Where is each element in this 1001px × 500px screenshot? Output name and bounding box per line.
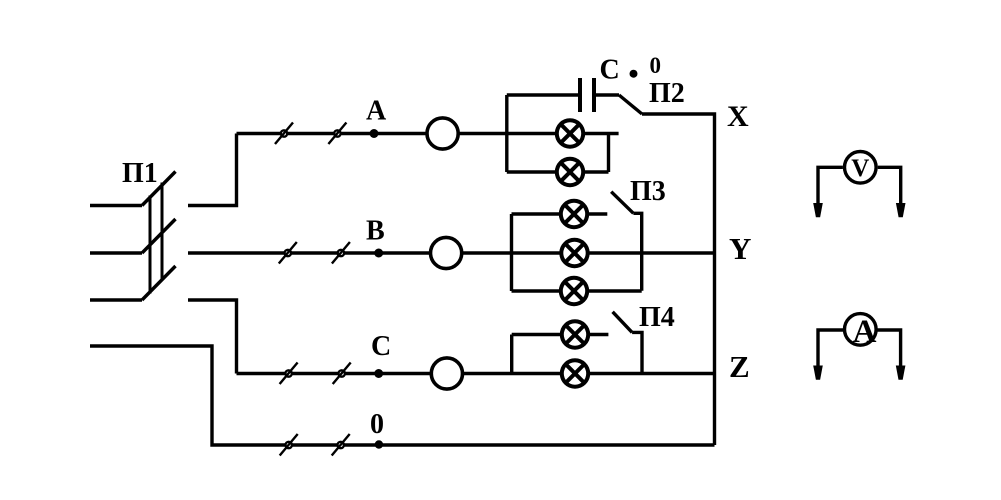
switch П1 blade pole 1 xyxy=(142,172,176,206)
connector fuse A2 xyxy=(328,123,346,145)
lamp B1 xyxy=(561,201,587,227)
wire phase A supply input xyxy=(90,204,142,207)
svg-text:0: 0 xyxy=(650,53,662,78)
wire phase B supply input xyxy=(90,251,142,254)
wire lamp B1 row xyxy=(512,212,608,215)
connector fuse 01 xyxy=(280,434,298,456)
lamp C1 xyxy=(562,321,588,347)
switch П1 blade pole 2 xyxy=(142,219,176,253)
switch П4 blade xyxy=(613,312,633,333)
lamp A2 xyxy=(557,159,583,185)
wire capacitor to П2 xyxy=(594,93,619,96)
svg-text:0: 0 xyxy=(370,409,384,440)
voltmeter V xyxy=(813,152,905,218)
svg-text:C: C xyxy=(371,331,391,362)
switch П3 blade xyxy=(611,192,633,214)
wire lamp C1 row xyxy=(512,333,609,336)
wire phase C group left vertical xyxy=(510,335,513,374)
ammeter A xyxy=(813,314,905,380)
svg-text:A: A xyxy=(366,96,387,127)
svg-text:B: B xyxy=(366,215,385,246)
node 0 dot xyxy=(375,440,383,448)
connector fuse C1 xyxy=(280,363,298,385)
wire phase A group right vertical xyxy=(607,134,610,173)
capacitor C plates xyxy=(580,78,594,112)
wire line C xyxy=(237,372,715,375)
svg-text:Z: Z xyxy=(729,349,750,384)
wire lamp A2 row xyxy=(507,170,609,173)
wire lamp B3 row xyxy=(512,289,642,292)
svg-text:П2: П2 xyxy=(649,78,685,109)
node B dot xyxy=(374,249,383,258)
wire capacitor branch left xyxy=(507,93,580,96)
wire phase B group left vertical xyxy=(510,214,513,291)
wire phase C supply input xyxy=(90,298,142,301)
switch П1 link bar xyxy=(150,183,162,294)
connector fuse B1 xyxy=(279,242,297,264)
wire phase A from П1 to line A xyxy=(188,134,237,206)
wire phase B from П1 (line B) xyxy=(188,251,715,254)
ammeter position phase A xyxy=(427,118,458,149)
lamp A1 xyxy=(557,120,583,146)
wire neutral line 0 xyxy=(90,346,715,445)
wire П4 to line C xyxy=(632,332,642,373)
switch П1 blade pole 3 xyxy=(142,266,176,300)
ammeter position phase B xyxy=(431,237,462,268)
lamp B2 xyxy=(561,240,587,266)
connector fuse B2 xyxy=(332,242,350,264)
svg-text:П3: П3 xyxy=(630,176,666,207)
wire bus X-Y-Z-0 xyxy=(642,114,715,445)
lamp C2 xyxy=(562,360,588,386)
wire phase C from П1 to line C xyxy=(188,300,237,374)
lamp B3 xyxy=(561,278,587,304)
node C dot xyxy=(374,369,383,378)
switch П2 blade xyxy=(619,95,642,114)
connector fuse 02 xyxy=(332,434,350,456)
svg-text:X: X xyxy=(727,100,749,133)
connector fuse C2 xyxy=(333,363,351,385)
wire phase A group left vertical xyxy=(505,95,508,172)
svg-text:V: V xyxy=(851,155,869,182)
svg-text:Y: Y xyxy=(729,231,751,266)
node dot near 0 label xyxy=(630,70,638,78)
svg-text:П4: П4 xyxy=(639,302,675,333)
wire line A xyxy=(237,132,619,135)
node A dot xyxy=(370,129,379,138)
ammeter position phase C xyxy=(431,358,462,389)
svg-text:A: A xyxy=(853,314,877,350)
wire П3 to right vertical B xyxy=(633,213,641,290)
svg-text:C: C xyxy=(600,55,620,86)
connector fuse A1 xyxy=(275,123,293,145)
svg-text:П1: П1 xyxy=(122,158,158,189)
